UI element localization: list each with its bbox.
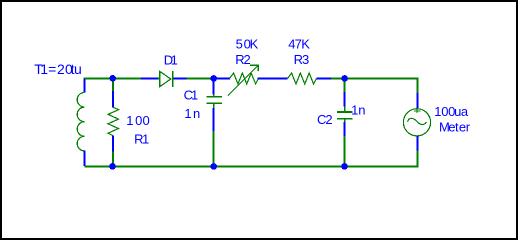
meter M1 body circle bbox=[403, 109, 430, 136]
resistor R2 pin left bbox=[215, 78, 230, 80]
node dot bottom middle bbox=[210, 163, 217, 170]
meter M1 pin bottom bbox=[417, 136, 419, 151]
node dot top middle bbox=[210, 75, 217, 82]
resistor R1 pin bottom bbox=[112, 136, 114, 152]
svg-text:100ua: 100ua bbox=[434, 104, 469, 119]
svg-text:C1: C1 bbox=[184, 87, 199, 102]
diode D1 pin right bbox=[174, 78, 187, 80]
svg-text:Meter: Meter bbox=[439, 120, 471, 135]
capacitor C1 pin top bbox=[213, 79, 215, 95]
diode D1 pin left bbox=[141, 78, 158, 80]
resistor R3 pin right bbox=[317, 78, 332, 80]
meter M1 pin top bbox=[417, 93, 419, 108]
svg-text:47K: 47K bbox=[288, 36, 310, 51]
node dot top right bbox=[341, 75, 348, 82]
node dot bottom left bbox=[109, 163, 116, 170]
wire C2 top bbox=[344, 79, 346, 93]
wire bottom rail bbox=[85, 150, 418, 167]
resistor R2 wiper arrow bbox=[228, 65, 259, 96]
diode D1 cathode bar bbox=[172, 71, 174, 87]
svg-text:C2: C2 bbox=[317, 112, 333, 127]
svg-text:R2: R2 bbox=[235, 52, 251, 67]
wire R1 top stub bbox=[112, 79, 114, 92]
resistor R2 pin right / R3 pin left bbox=[258, 78, 288, 80]
resistor R1 body bbox=[108, 107, 119, 135]
wire C1 bottom bbox=[213, 131, 215, 167]
node dot bottom right bbox=[341, 163, 348, 170]
capacitor C2 pin bottom bbox=[344, 122, 346, 136]
wire C2 bottom bbox=[344, 136, 346, 167]
capacitor C1 pin bottom bbox=[213, 108, 215, 131]
inductor T1 body bbox=[77, 93, 84, 151]
wire top rail left (loop top) bbox=[85, 79, 142, 80]
svg-text:R3: R3 bbox=[294, 52, 310, 67]
meter M1 sine wave bbox=[408, 118, 427, 124]
capacitor C2 pin top bbox=[344, 92, 346, 107]
svg-text:50K: 50K bbox=[236, 36, 259, 51]
resistor R1 pin top bbox=[112, 91, 114, 107]
node dot top left bbox=[109, 75, 116, 82]
resistor R2 body bbox=[230, 73, 259, 84]
wire R1 bottom stub bbox=[112, 151, 114, 167]
capacitor C1 body bbox=[207, 94, 223, 108]
capacitor C2 body bbox=[337, 106, 353, 122]
meter M1 plus mark bbox=[414, 108, 421, 113]
wire diode to C1 node bbox=[187, 78, 216, 80]
diode D1 body bbox=[160, 71, 171, 86]
svg-text:D1: D1 bbox=[164, 52, 178, 67]
svg-text:1n: 1n bbox=[351, 103, 365, 118]
svg-text:T1=20tu: T1=20tu bbox=[34, 61, 81, 77]
inductor T1 pin bottom bbox=[84, 151, 86, 167]
svg-text:R1: R1 bbox=[134, 131, 149, 146]
inductor T1 pin top bbox=[84, 79, 86, 93]
svg-text:100: 100 bbox=[126, 113, 149, 128]
wire R3 to C2 node and top right corner bbox=[331, 79, 418, 94]
resistor R3 body bbox=[288, 73, 317, 84]
svg-text:1n: 1n bbox=[184, 106, 200, 121]
